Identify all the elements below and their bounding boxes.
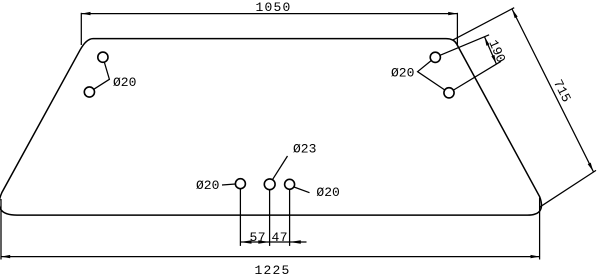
hole A2 Ø20 top-left lower [84,87,94,97]
hole C1 Ø20 bottom left [235,179,245,189]
svg-text:Ø20: Ø20 [316,185,339,200]
leader bottom-left Ø20 [222,184,235,185]
dimension 190 extension line from hole B1 [440,35,489,56]
hole B1 Ø20 top-right upper [430,52,440,62]
svg-text:Ø20: Ø20 [113,75,136,90]
extension line from hole C3 [289,189,291,246]
dimension 190 line with arrows [485,37,497,64]
dimension 1225 extension line right [539,198,541,260]
dimension 1050 line [81,13,457,15]
dimension 1050 extension line right [456,13,458,46]
leader top-left holes [94,62,110,89]
hole C2 Ø23 bottom middle [264,179,275,190]
hole B2 Ø20 top-right lower [444,88,454,98]
hole C3 Ø20 bottom right [285,179,295,189]
svg-text:1050: 1050 [256,0,292,15]
dimension 190 extension line from hole B2 [453,61,501,90]
extension line from hole C2 [269,190,271,246]
svg-text:47: 47 [272,230,288,245]
svg-text:57: 57 [250,230,266,245]
svg-text:Ø20: Ø20 [391,66,414,81]
extension line from hole C1 [239,189,241,246]
leader Ø23 [273,156,288,179]
part outline [0,39,541,216]
svg-text:1225: 1225 [255,263,291,276]
hole A1 Ø20 top-left upper [98,52,108,62]
leader top-right holes [418,61,445,91]
dimension 715 extension line bottom [540,170,596,207]
dimension 715 line [512,9,593,172]
dimension 1225 line [1,256,540,258]
leader bottom-right Ø20 [294,187,310,193]
dimension 1225 extension line left [0,199,2,260]
dimension 57-47 line [240,241,306,243]
dimension 715 extension line top [452,8,514,41]
svg-text:Ø23: Ø23 [293,141,316,156]
svg-text:Ø20: Ø20 [196,178,219,193]
dimension 1050 extension line left [80,13,82,45]
